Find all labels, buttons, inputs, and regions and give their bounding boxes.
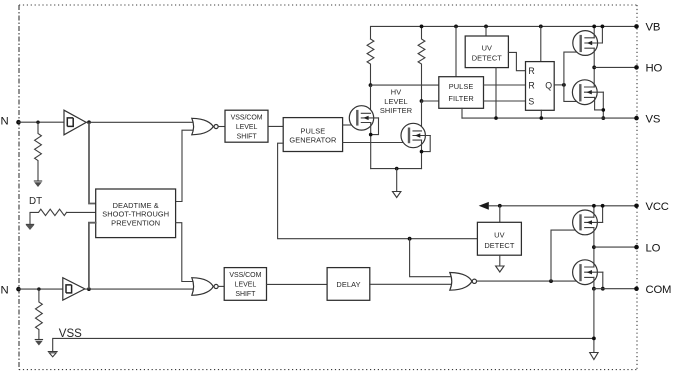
svg-text:VS: VS <box>646 113 661 125</box>
nor gate G2 <box>192 278 213 296</box>
wire Q3 drain to VCC <box>593 206 595 217</box>
svg-text:LO: LO <box>646 242 661 254</box>
svg-text:DEADTIME &: DEADTIME & <box>113 201 159 210</box>
svg-text:N: N <box>1 284 9 296</box>
pin LIN (N) <box>16 287 21 292</box>
node VB to UV detect <box>484 25 488 29</box>
wire VB down to pulse filter top <box>455 26 457 76</box>
wire LO rail <box>594 246 637 248</box>
node Q2 source/body <box>602 108 606 112</box>
wire pulse generator feedback down to lower section <box>278 143 478 239</box>
transistor Q6 (HV level shifter right) <box>401 123 430 147</box>
box PULSE GENERATOR <box>283 118 342 152</box>
svg-text:LEVEL: LEVEL <box>384 97 408 106</box>
nor gate G3 <box>450 273 472 291</box>
wire Q2 drain up to HO <box>593 67 595 87</box>
svg-text:PULSE: PULSE <box>449 82 474 91</box>
wire latch Q output <box>554 84 564 86</box>
wire R1 tap down to Q5 drain <box>370 85 372 113</box>
wire Q node to Q2 gate <box>564 85 579 102</box>
box VSS/COM LEVEL SHIFT (high side) <box>225 110 268 142</box>
wire pulse filter out 2 to latch S <box>484 100 526 102</box>
wire buffer out to NOR G2 <box>85 288 197 290</box>
wire delay to NOR G3 <box>370 283 456 285</box>
svg-text:PREVENTION: PREVENTION <box>111 218 160 227</box>
wire Q3 source down to LO <box>593 228 595 248</box>
wire Q1 body to VB <box>601 26 603 43</box>
svg-text:VSS/COM: VSS/COM <box>231 115 263 122</box>
wire N to buffer <box>19 121 65 123</box>
svg-text:SHIFT: SHIFT <box>237 134 258 141</box>
node common source <box>395 167 399 171</box>
wire deadtime out to NOR G1 lower input <box>176 130 197 201</box>
wire COM down to ground <box>593 289 595 353</box>
wire Q1 source down to HO <box>593 48 595 67</box>
border left (dash-dot) <box>18 5 20 370</box>
wire Q2 source jog to body line <box>595 97 604 110</box>
schmitt buffer U2 (LIN) <box>63 278 85 300</box>
wire VB down to UV detect top <box>485 26 487 36</box>
wire HO rail <box>594 66 636 68</box>
wire N to buffer (lower) <box>19 288 63 290</box>
resistor R-HIN pulldown <box>35 122 42 181</box>
box DEADTIME & SHOOT-THROUGH PREVENTION <box>96 189 176 238</box>
svg-text:GENERATOR: GENERATOR <box>289 136 336 145</box>
transistor Q4 (LO driver low) <box>573 260 603 285</box>
box VSS/COM LEVEL SHIFT (low side) <box>224 268 266 301</box>
box RS latch U3 <box>526 62 555 111</box>
pin VS <box>634 116 639 121</box>
wire G3 output to LO driver gates <box>477 280 580 282</box>
wire VCC rail <box>489 205 637 207</box>
svg-text:SHIFTER: SHIFTER <box>380 106 412 115</box>
wire Q4 source down to COM <box>593 277 595 288</box>
wire VB rail <box>371 26 637 39</box>
node VS at Q2 <box>601 116 605 120</box>
node VS at latch <box>540 116 544 120</box>
wire latch bottom to VS rail <box>540 110 542 118</box>
svg-text:VSS/COM: VSS/COM <box>229 272 261 279</box>
svg-text:HO: HO <box>646 63 663 75</box>
ground (HV shifter, open arrow) <box>393 192 401 198</box>
wire Q3 body to VCC <box>602 206 604 223</box>
node Q drive <box>562 83 566 87</box>
svg-text:DETECT: DETECT <box>472 53 503 62</box>
resistor R-LIN pulldown <box>36 289 43 339</box>
svg-text:COM: COM <box>646 284 672 296</box>
ground (HIN pulldown) <box>34 180 42 182</box>
ground (VSS left) <box>48 352 58 357</box>
node junction at LIN pulldown <box>37 287 40 290</box>
pin VB <box>634 24 639 29</box>
node VS at UV detect <box>494 116 498 120</box>
node R1 tap <box>369 83 373 87</box>
border right <box>636 5 638 370</box>
node VCC to UV detect <box>498 204 502 208</box>
svg-text:S: S <box>528 97 534 107</box>
svg-text:R: R <box>528 66 534 76</box>
wire pulse filter out 1 to latch R <box>484 84 526 86</box>
transistor Q5 (HV level shifter left) <box>349 106 378 130</box>
wire level shift to pulse generator <box>268 125 283 127</box>
wire Q2 body to VS <box>602 92 604 118</box>
wire node down to NOR G3 upper input <box>410 239 456 277</box>
pin HO <box>634 65 639 70</box>
border bottom <box>19 369 637 371</box>
svg-text:VB: VB <box>646 22 661 34</box>
border top <box>19 4 637 6</box>
ground (COM bottom, open arrow) <box>590 353 598 360</box>
node Q3 body <box>601 204 605 208</box>
node latch top to VB <box>539 25 543 29</box>
node Q1 body <box>601 25 605 29</box>
wire latch top to VB <box>540 26 542 61</box>
wire Q5 source+body to common source rail <box>371 118 379 169</box>
transistor Q2 (HO driver low) <box>572 80 603 105</box>
svg-text:UV: UV <box>482 43 492 52</box>
svg-text:DELAY: DELAY <box>336 280 360 289</box>
wire R2 tap down to Q6 drain <box>421 101 423 131</box>
ground (DT) <box>26 225 34 230</box>
wire HV shifter common source rail <box>371 168 422 170</box>
svg-text:DT: DT <box>29 196 42 207</box>
node Q6 source <box>420 150 424 154</box>
svg-text:SHOOT-THROUGH: SHOOT-THROUGH <box>102 210 169 219</box>
wire UV detect (low) output down <box>499 255 501 266</box>
box UV DETECT (low side) <box>477 222 521 255</box>
pin HIN (N) <box>16 120 21 125</box>
wire deadtime out to NOR G2 upper input <box>176 223 197 282</box>
box UV DETECT (high side) <box>465 36 508 68</box>
wire to HV shifter ground <box>396 169 398 192</box>
wire pulse filter bottom to VS rail <box>461 108 463 118</box>
wire Q4 body down to COM <box>602 272 604 289</box>
pin LO <box>634 245 639 250</box>
wire R2 tap to pulse filter input 2 <box>422 100 439 102</box>
pin VCC <box>634 204 639 209</box>
node gate drive LO <box>549 279 553 283</box>
svg-text:N: N <box>1 116 9 128</box>
wire Q node to Q1 gate <box>564 52 579 85</box>
node Q5 source <box>369 133 373 137</box>
wire node up to upper LO fet gate <box>551 230 580 281</box>
svg-text:HV: HV <box>391 88 401 97</box>
node LIN buffered <box>87 287 91 291</box>
nor gate G1 <box>192 118 213 135</box>
wire G1 to VSS/COM level shift <box>218 126 225 128</box>
svg-text:UV: UV <box>494 230 504 239</box>
node COM at Q4 source <box>592 287 596 291</box>
node Q1 drain <box>592 25 596 29</box>
node LO junction <box>592 245 596 249</box>
ground (LIN pulldown) <box>35 339 43 341</box>
svg-text:PULSE: PULSE <box>301 126 326 135</box>
resistor R-DT <box>30 209 67 224</box>
node HO junction <box>592 66 596 70</box>
svg-text:SHIFT: SHIFT <box>235 291 256 298</box>
wire Q4 drain up to LO <box>593 247 595 267</box>
schmitt buffer U1 (HIN) <box>64 110 86 135</box>
node R2 top <box>420 25 424 29</box>
wire buffer out to NOR G1 <box>86 121 197 123</box>
wire G2 to VSS/COM level shift (low side) <box>218 285 224 287</box>
box DELAY <box>327 268 370 301</box>
svg-text:LEVEL: LEVEL <box>235 282 257 289</box>
node R2 tap <box>420 99 424 103</box>
wire VSS rail <box>53 338 594 351</box>
wire DT to deadtime box <box>67 211 96 213</box>
wire UV detect out to latch R (top) <box>508 52 525 70</box>
node Q3 drain <box>592 204 596 208</box>
svg-text:FILTER: FILTER <box>448 94 474 103</box>
wire VCC down to UV detect (low side) <box>499 206 501 223</box>
pin COM <box>634 286 639 291</box>
wire R1 tap to pulse filter input 1 <box>371 84 439 86</box>
node on feedback wire <box>408 237 412 241</box>
svg-text:R: R <box>528 80 534 90</box>
node VSS rail meets COM ground <box>592 337 596 341</box>
wire level shift to delay <box>267 283 328 285</box>
wire VS rail <box>462 117 637 119</box>
transistor Q1 (HO driver high) <box>573 31 603 56</box>
node VB to pulse filter <box>454 25 458 29</box>
resistor R1 (HV shifter load 1) <box>367 39 374 85</box>
svg-text:VCC: VCC <box>646 201 669 213</box>
wire LIN to deadtime block <box>89 223 96 288</box>
VCC rail arrow <box>479 202 489 210</box>
wire pulse generator to Q5 gate <box>343 124 357 126</box>
box PULSE FILTER <box>439 77 484 109</box>
ground arrow (UV low output) <box>496 266 504 272</box>
node HIN buffered <box>87 120 91 124</box>
transistor Q3 (LO driver high) <box>573 210 603 235</box>
wire Q1 drain to VB <box>593 26 595 37</box>
svg-text:Q: Q <box>545 80 552 90</box>
node junction at HIN pulldown <box>36 121 39 124</box>
svg-text:DETECT: DETECT <box>484 241 515 250</box>
wire Q6 source+body to common source rail <box>422 136 431 169</box>
resistor R2 (HV shifter load 2) <box>418 26 425 101</box>
wire pulse generator to Q6 gate <box>343 142 408 144</box>
wire UV detect bottom to VS rail <box>495 68 497 119</box>
node COM at Q4 body <box>601 287 605 291</box>
wire HIN to deadtime block <box>89 124 96 204</box>
svg-text:LEVEL: LEVEL <box>236 124 258 131</box>
wire COM rail <box>594 288 637 290</box>
